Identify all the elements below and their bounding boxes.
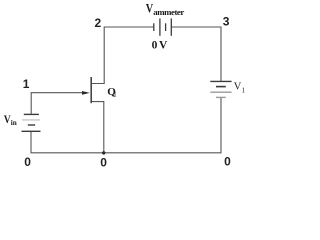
svg-text:1: 1 xyxy=(23,77,30,91)
svg-text:3: 3 xyxy=(223,14,230,28)
svg-text:ammeter: ammeter xyxy=(153,7,184,17)
svg-text:1: 1 xyxy=(113,91,117,99)
svg-text:1: 1 xyxy=(242,86,246,94)
svg-text:2: 2 xyxy=(95,16,102,30)
svg-text:0: 0 xyxy=(100,155,107,169)
svg-text:0: 0 xyxy=(24,155,31,169)
svg-text:0 V: 0 V xyxy=(152,40,168,52)
svg-text:in: in xyxy=(11,119,17,127)
svg-text:V: V xyxy=(234,81,242,92)
svg-text:0: 0 xyxy=(224,155,231,169)
